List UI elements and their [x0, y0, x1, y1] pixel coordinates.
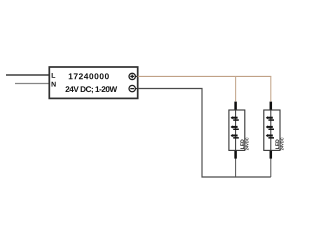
connector stub bottom E1 — [234, 150, 237, 159]
LED D6 — [266, 134, 274, 139]
LED module E2 box — [264, 110, 280, 150]
wire riser to module E1 — [235, 159, 237, 178]
LED driver U1 box — [49, 67, 137, 98]
connector stub top E1 — [234, 102, 237, 111]
internal wire E2 — [270, 110, 272, 150]
terminal label N — [52, 82, 56, 87]
connector stub top E2 — [270, 102, 273, 111]
LED D2 — [231, 125, 239, 130]
wire N (neutral input) — [15, 83, 50, 85]
terminal + (plus output) — [129, 73, 138, 79]
LED D3 — [231, 134, 239, 139]
connector stub bottom E2 — [270, 150, 273, 159]
label LED (module E2) — [275, 140, 278, 149]
wire + positive (tan) — [138, 76, 272, 101]
LED D1 — [231, 116, 239, 121]
terminal label L — [52, 73, 56, 78]
terminal - (minus output) — [129, 85, 138, 91]
wire L (phase input) — [6, 74, 50, 76]
label LED (module E1) — [240, 140, 243, 149]
driver rating 24V DC; 1-20W — [65, 86, 117, 93]
label 24VDC (module E1) — [246, 138, 249, 151]
wire riser to module E2 — [270, 159, 272, 178]
LED D4 — [266, 116, 274, 121]
internal wire E1 — [235, 110, 237, 150]
LED module E1 box — [229, 110, 245, 150]
wire - negative return — [138, 89, 271, 178]
LED D5 — [266, 125, 274, 130]
label 24VDC (module E2) — [281, 138, 284, 151]
driver part number 17240000 — [69, 73, 109, 79]
